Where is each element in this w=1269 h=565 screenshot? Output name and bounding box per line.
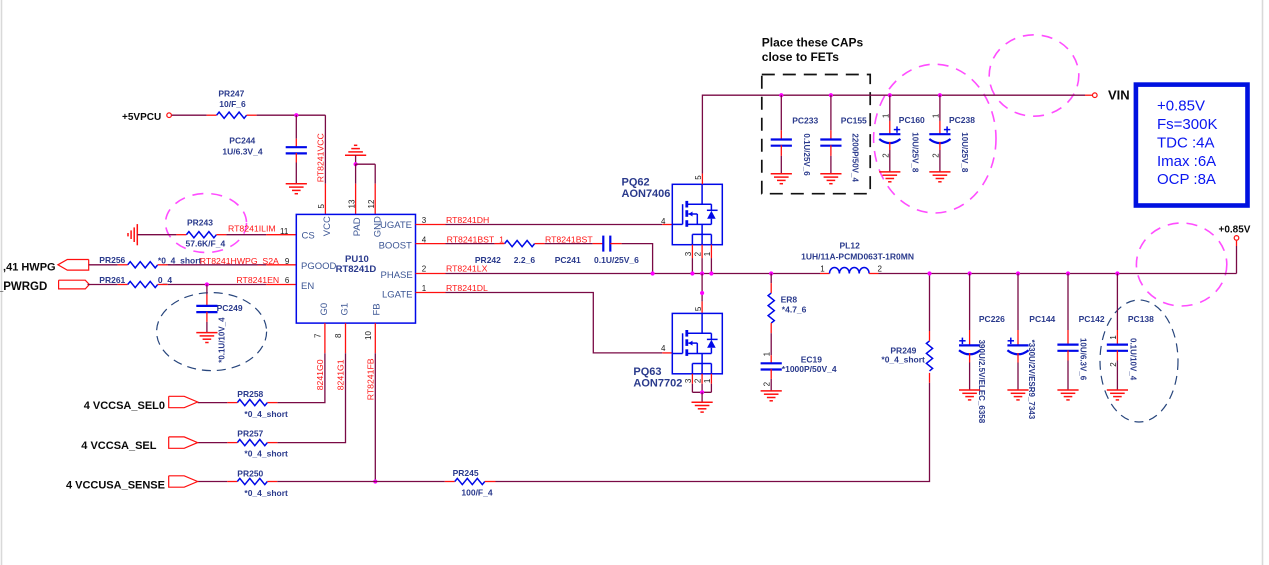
pin name GND [372, 216, 383, 237]
terminal +0.85V [1219, 225, 1251, 241]
svg-text:12: 12 [367, 199, 376, 208]
svg-text:RT8241HWPG_S2A: RT8241HWPG_S2A [200, 256, 279, 266]
svg-text:PQ62: PQ62 [622, 177, 650, 189]
svg-text:4: 4 [661, 217, 666, 226]
svg-text:10U/25V_8: 10U/25V_8 [911, 132, 920, 173]
wire PR243 to CS pin 11 [216, 234, 296, 236]
pin number 13 of PU10 [347, 199, 356, 208]
pin number 4 of PQ62 [661, 217, 666, 226]
svg-text:57.6K/F_4: 57.6K/F_4 [186, 238, 226, 248]
svg-text:10U/6.3V_6: 10U/6.3V_6 [1079, 338, 1088, 381]
wire UGATE pin 3 to PQ62 gate [416, 224, 673, 226]
capacitor PC138 [1107, 314, 1154, 381]
wire ER8 to EC19 [770, 323, 772, 363]
svg-text:close to FETs: close to FETs [762, 50, 839, 64]
svg-text:PHASE: PHASE [381, 270, 413, 281]
svg-text:2200P/50V_4: 2200P/50V_4 [851, 133, 860, 182]
terminal +5VPCU [122, 112, 171, 123]
svg-text:EC19: EC19 [801, 354, 823, 364]
wire PR261 to EN pin 6 [158, 284, 297, 286]
svg-text:10/F_6: 10/F_6 [219, 99, 246, 109]
annotation dashed ellipse around PR243 [166, 194, 247, 253]
svg-text:,41 HWPG: ,41 HWPG [3, 262, 56, 274]
svg-text:*4.7_6: *4.7_6 [782, 305, 807, 315]
wire junction to pin 12 [356, 164, 376, 214]
page edge line right [1262, 0, 1264, 565]
svg-text:PR243: PR243 [187, 218, 213, 228]
pin name PAD [352, 217, 363, 236]
wire PQ62 pin 1 to LX [710, 245, 712, 274]
pin number 2 of PQ62 [694, 251, 703, 256]
pin name EN [301, 281, 314, 292]
capacitor PC238 [929, 115, 975, 173]
wire VCC vertical to pin 5 [324, 115, 326, 214]
svg-text:+0.85V: +0.85V [1219, 225, 1251, 236]
wire FB pin 10 down [374, 323, 376, 481]
wire PR245 to PR249 column [485, 373, 930, 482]
svg-text:PR256: PR256 [99, 255, 125, 265]
svg-text:2: 2 [1109, 362, 1118, 367]
net label RT8241BST_1 [447, 234, 504, 244]
svg-text:PR261: PR261 [99, 275, 125, 285]
svg-text:_PWRGD: _PWRGD [0, 281, 47, 293]
svg-text:8241G0: 8241G0 [315, 359, 325, 390]
net label 8241G0 [315, 359, 325, 390]
wire PR258 to connector [198, 402, 238, 404]
svg-text:1: 1 [703, 251, 712, 256]
resistor PR242 [475, 241, 535, 265]
pin number 11 of PU10 [280, 227, 289, 236]
pin number 2 of PL12 [878, 265, 883, 274]
ground below PC144 [1007, 390, 1028, 400]
svg-text:Place these CAPs: Place these CAPs [762, 36, 864, 50]
svg-text:0.1U/10V_4: 0.1U/10V_4 [1128, 338, 1137, 381]
node LX junction ER8 [769, 271, 773, 275]
wire EC19 to ground [770, 369, 772, 391]
svg-text:ER8: ER8 [781, 295, 798, 305]
pin name PGOOD [301, 261, 337, 272]
pin number 3 of PQ62 [684, 251, 693, 256]
pin number 5 of PQ62 [694, 175, 703, 180]
svg-text:RT8241FB: RT8241FB [365, 358, 375, 400]
capacitor PC160 [879, 115, 925, 173]
wire ground to PR243 [137, 234, 186, 236]
node LX junction pin2 [700, 271, 704, 275]
pin name PHASE [381, 270, 413, 281]
svg-text:RT8241EN: RT8241EN [236, 275, 279, 285]
wire VIN to PC233 [780, 95, 782, 139]
svg-text:PR245: PR245 [453, 468, 479, 478]
pin number 5 of PQ63 [694, 306, 703, 311]
svg-text:5: 5 [694, 306, 703, 311]
node PAD-GND junction [354, 162, 358, 166]
annotation dashed ellipse around PC138 [1100, 300, 1178, 422]
svg-text:*1000P/50V_4: *1000P/50V_4 [782, 364, 837, 374]
pin name UGATE [380, 220, 412, 231]
svg-text:*330U/2V/ESR9_7343: *330U/2V/ESR9_7343 [1027, 340, 1036, 420]
net label RT8241ILIM [228, 224, 276, 234]
wire PC160 to ground [889, 142, 891, 172]
svg-text:PC138: PC138 [1128, 314, 1154, 324]
wire LX to ER8 [770, 274, 772, 294]
svg-text:*0_4_short: *0_4_short [244, 409, 288, 419]
wire PQ62 pin 3 to LX [691, 245, 693, 274]
wire PR257 to connector [198, 442, 238, 444]
svg-text:*0_4_short: *0_4_short [244, 448, 288, 458]
svg-text:CS: CS [302, 231, 315, 242]
svg-text:4 VCCSA_SEL0: 4 VCCSA_SEL0 [84, 400, 165, 412]
pin name G0 [319, 303, 330, 316]
svg-text:VCC: VCC [322, 216, 333, 236]
pin number 3 of PQ63 [684, 378, 693, 383]
pin number 9 of PU10 [285, 257, 290, 266]
ground below PC249 [196, 333, 217, 343]
wire rail to PC138 [1116, 274, 1118, 345]
svg-text:10: 10 [364, 331, 373, 340]
svg-text:1U/6.3V_4: 1U/6.3V_4 [222, 147, 262, 157]
svg-text:EN: EN [301, 281, 314, 292]
svg-text:0.1U/25V_6: 0.1U/25V_6 [802, 133, 811, 176]
net label RT8241HWPG_S2A [200, 256, 279, 266]
net label RT8241BST [545, 234, 593, 244]
wire PR242 to PC241 [535, 243, 603, 245]
net label RT8241VCC [316, 133, 326, 182]
resistor ER8 [768, 293, 807, 323]
pin number 4 of PU10 [422, 235, 427, 244]
svg-text:BOOST: BOOST [379, 241, 412, 252]
wire PC233 to ground [780, 145, 782, 174]
svg-text:RT8241D: RT8241D [336, 264, 377, 275]
connector VCCUSA_SENSE [66, 476, 198, 492]
svg-text:0_4: 0_4 [158, 275, 172, 285]
svg-text:2: 2 [694, 251, 703, 256]
wire junction to PC249 [206, 285, 208, 306]
wire HWPG to PR256 [89, 264, 128, 266]
svg-text:100/F_4: 100/F_4 [461, 488, 492, 498]
ground below PC160 [879, 172, 900, 182]
ground below PC238 [929, 172, 950, 182]
wire VIN to PC155 [830, 95, 832, 139]
wire VCCUSA_SENSE to PR250 [198, 481, 238, 483]
wire PC241 to LX node [610, 244, 652, 274]
svg-text:3: 3 [422, 216, 427, 225]
wire PR250 to FB junction [267, 481, 375, 483]
pin number 2 of PC160 [881, 153, 890, 158]
pin number 1 of PQ62 [703, 251, 712, 256]
pin number 10 of PU10 [364, 331, 373, 340]
svg-text:1: 1 [703, 378, 712, 383]
svg-text:5: 5 [317, 204, 326, 209]
svg-text:LGATE: LGATE [382, 290, 412, 301]
annotation dashed circle near VIN [989, 35, 1079, 116]
svg-text:PC249: PC249 [217, 303, 243, 313]
svg-text:Imax :6A: Imax :6A [1157, 153, 1216, 170]
connector PWRGD [0, 280, 89, 293]
svg-text:OCP :8A: OCP :8A [1157, 171, 1216, 188]
node FB-SENSE junction [373, 479, 377, 483]
terminal VIN [1093, 87, 1130, 102]
svg-text:390U/2.5V/ELEC_6358: 390U/2.5V/ELEC_6358 [977, 340, 986, 424]
pin number 1 of PU10 [422, 284, 427, 293]
svg-text:Fs=300K: Fs=300K [1157, 116, 1217, 133]
annotation dashed ellipse around PC160 PC238 [874, 64, 996, 213]
svg-text:TDC :4A: TDC :4A [1157, 134, 1215, 151]
ground below PC142 [1057, 390, 1078, 400]
svg-text:4: 4 [422, 235, 427, 244]
wire PC226 to ground [969, 353, 971, 390]
wire PC144 to ground [1017, 353, 1019, 390]
wire PC142 to ground [1067, 350, 1069, 390]
ground below PC155 [820, 174, 841, 184]
capacitor PC144 [1007, 314, 1055, 420]
svg-text:PC244: PC244 [229, 136, 255, 146]
svg-text:*0_4_short: *0_4_short [881, 354, 925, 364]
svg-text:13: 13 [347, 199, 356, 208]
wire rail up to +0.85V terminal [1236, 241, 1238, 274]
wire PQ63 pin 2 to gnd bar [701, 374, 703, 393]
info box +0.85V specs [1136, 85, 1248, 206]
ground below PC244 [286, 184, 307, 194]
pin number 3 of PU10 [422, 216, 427, 225]
node rail junction PC138 [1115, 271, 1119, 275]
wire BOOST pin 4 to PR242 [416, 243, 505, 245]
connector HWPG [3, 260, 89, 274]
node VIN junction PC155 [829, 93, 833, 97]
ground below PC233 [771, 174, 792, 184]
capacitor PC241 [555, 236, 639, 265]
resistor PR257 [237, 429, 288, 459]
resistor PR256 [99, 255, 201, 268]
transistor PQ62 AON7406 [622, 177, 723, 245]
ground below PC226 [959, 390, 980, 400]
svg-text:1: 1 [422, 284, 427, 293]
svg-text:2: 2 [694, 378, 703, 383]
wire LGATE pin 1 to PQ63 gate [416, 293, 673, 353]
pin name VCC [322, 216, 333, 236]
svg-text:PR258: PR258 [237, 389, 263, 399]
pin number 2 of EC19 [763, 381, 772, 386]
node rail junction PR249 [927, 271, 931, 275]
net label RT8241EN [236, 275, 279, 285]
resistor PR247 [217, 89, 247, 119]
wire PQ63 pin 3 to gnd bar [691, 374, 693, 393]
capacitor PC142 [1057, 314, 1104, 381]
svg-text:5: 5 [694, 175, 703, 180]
resistor PR261 [99, 275, 172, 288]
resistor PR249 [881, 341, 932, 371]
svg-text:8241G1: 8241G1 [336, 359, 346, 390]
svg-text:AON7702: AON7702 [633, 377, 682, 389]
net label RT8241DH [446, 215, 489, 225]
svg-text:1UH/11A-PCMD063T-1R0MN: 1UH/11A-PCMD063T-1R0MN [801, 251, 914, 261]
net label RT8241DL [446, 283, 488, 293]
capacitor PC244 [222, 136, 307, 157]
wire rail to PC226 [969, 274, 971, 346]
svg-text:PC238: PC238 [949, 115, 975, 125]
node on PQ63 drain wire [700, 291, 704, 295]
node EN-PC249 junction [205, 282, 209, 286]
svg-text:4 VCCSA_SEL: 4 VCCSA_SEL [81, 440, 156, 452]
pin number 2 of PU10 [422, 265, 427, 274]
pin number 12 of PU10 [367, 199, 376, 208]
svg-text:1: 1 [763, 351, 772, 356]
net label RT8241FB [365, 358, 375, 400]
wire VIN rail to terminal [1085, 94, 1092, 96]
svg-text:PR257: PR257 [237, 429, 263, 439]
svg-text:PC226: PC226 [979, 314, 1005, 324]
svg-text:PQ63: PQ63 [633, 366, 661, 378]
svg-text:11: 11 [280, 227, 289, 236]
connector VCCSA_SEL [81, 437, 197, 452]
svg-text:AON7406: AON7406 [622, 188, 671, 200]
annotation dashed rectangle around PC233 PC155 [762, 75, 870, 194]
wire VIN rail corner to PQ62 pin 5 [702, 95, 1085, 184]
svg-text:+5VPCU: +5VPCU [122, 112, 161, 123]
wire PC244 to ground [295, 153, 297, 184]
pin name G1 [339, 303, 350, 316]
wire PC238 to ground [939, 142, 941, 172]
capacitor PC226 [959, 314, 1005, 424]
wire PC138 to ground [1116, 350, 1118, 390]
svg-text:VIN: VIN [1108, 87, 1130, 102]
pin number 2 of PQ63 [694, 378, 703, 383]
svg-text:G1: G1 [339, 303, 350, 316]
wire FB junction to PR245 [375, 481, 455, 483]
pin name BOOST [379, 241, 412, 252]
node rail junction PC142 [1066, 271, 1070, 275]
svg-text:4 VCCUSA_SENSE: 4 VCCUSA_SENSE [66, 479, 165, 491]
node VIN junction PC238 [938, 93, 942, 97]
ground below PC138 [1107, 390, 1128, 400]
resistor PR258 [237, 389, 288, 419]
pin number 4 of PQ63 [661, 344, 666, 353]
wire +5VPCU to PR247 [172, 114, 217, 116]
wire PQ63 source bar [692, 391, 711, 393]
svg-text:PC155: PC155 [841, 115, 867, 125]
net label RT8241LX [446, 264, 488, 274]
svg-text:8: 8 [334, 333, 343, 338]
wire PC249 to ground [206, 312, 208, 333]
svg-text:1: 1 [1109, 335, 1118, 340]
wire PQ62 pin 2 to LX [701, 245, 703, 274]
pin number 7 of PU10 [314, 333, 323, 338]
svg-text:1: 1 [931, 113, 940, 118]
capacitor EC19 [761, 354, 837, 374]
wire PQ63 pin 1 to gnd bar [710, 374, 712, 393]
svg-text:3: 3 [684, 378, 693, 383]
pin name CS [302, 231, 315, 242]
svg-text:PC160: PC160 [899, 115, 925, 125]
wire G1 pin 8 to PR257 [267, 323, 345, 443]
capacitor PC155 [820, 115, 867, 182]
node PQ63 source junction [700, 390, 704, 394]
svg-text:9: 9 [285, 257, 290, 266]
ground below EC19 [761, 391, 782, 401]
wire junction to PC244 [295, 115, 297, 147]
pin number 5 of PU10 [317, 204, 326, 209]
svg-text:RT8241DH: RT8241DH [446, 215, 489, 225]
node BST cap junction [651, 271, 655, 275]
annotation dashed ellipse around PC249 [157, 293, 267, 371]
svg-text:G0: G0 [319, 303, 330, 316]
node rail junction PC144 [1016, 271, 1020, 275]
resistor PR245 [453, 468, 493, 498]
capacitor PC233 [771, 115, 819, 176]
svg-text:*0.1U/10V_4: *0.1U/10V_4 [218, 317, 227, 363]
ground left of PR243 [128, 224, 137, 245]
pin name FB [371, 303, 382, 315]
svg-text:7: 7 [314, 333, 323, 338]
transistor PQ63 AON7702 [633, 313, 722, 389]
inductor PL12 [801, 240, 914, 273]
svg-text:0.1U/25V_6: 0.1U/25V_6 [594, 255, 639, 265]
svg-text:PAD: PAD [352, 217, 363, 236]
wire PC155 to ground [830, 145, 832, 174]
op-amp U1 PU10 RT8241D body [296, 214, 415, 323]
annotation dashed circle near +0.85V [1136, 223, 1226, 306]
wire LX down to PQ63 pin 5 [701, 274, 703, 314]
svg-text:RT8241BST: RT8241BST [545, 234, 593, 244]
svg-text:UGATE: UGATE [380, 220, 412, 231]
svg-text:10U/25V_8: 10U/25V_8 [960, 132, 969, 173]
svg-text:6: 6 [285, 276, 290, 285]
pin name LGATE [382, 290, 412, 301]
svg-text:RT8241ILIM: RT8241ILIM [228, 224, 276, 234]
pin number 8 of PU10 [334, 333, 343, 338]
svg-text:RT8241LX: RT8241LX [446, 264, 488, 274]
svg-text:2.2_6: 2.2_6 [514, 255, 536, 265]
pin number 1 of PC238 [931, 113, 940, 118]
wire PR247 to VCC node [247, 114, 326, 116]
node RT8241VCC junction [294, 113, 298, 117]
pin number 1 of EC19 [763, 351, 772, 356]
svg-text:RT8241DL: RT8241DL [446, 283, 488, 293]
node rail junction PC226 [968, 271, 972, 275]
svg-text:PC144: PC144 [1029, 314, 1055, 324]
wire VIN to PC160 [889, 95, 891, 134]
wire rail to PC142 [1067, 274, 1069, 345]
svg-text:PGOOD: PGOOD [301, 261, 337, 272]
ground above PAD GND pins [345, 145, 366, 155]
connector VCCSA_SEL0 [84, 396, 198, 412]
pin number 1 of PC160 [881, 113, 890, 118]
wire to PQ63 ground [701, 392, 703, 402]
node VIN junction PC233 [779, 93, 783, 97]
ground below PQ63 [692, 402, 713, 412]
svg-text:RT8241BST_1: RT8241BST_1 [447, 234, 504, 244]
wire PR249 to LX rail [929, 274, 931, 341]
svg-text:+0.85V: +0.85V [1157, 97, 1205, 114]
svg-text:PL12: PL12 [840, 240, 861, 250]
note Place these CAPs close to FETs [762, 36, 864, 65]
svg-text:2: 2 [931, 153, 940, 158]
wire PR256 to PGOOD pin 9 [158, 264, 297, 266]
wire ground to PAD GND junction [355, 155, 357, 164]
svg-text:2: 2 [422, 265, 427, 274]
wire rail to PC144 [1017, 274, 1019, 346]
svg-text:FB: FB [371, 303, 382, 315]
wire VIN to PC238 [939, 95, 941, 134]
svg-text:1: 1 [820, 265, 825, 274]
wire PHASE pin 2 to inductor [416, 273, 821, 275]
svg-text:PR247: PR247 [218, 89, 244, 99]
svg-text:2: 2 [878, 265, 883, 274]
pin number 1 of PL12 [820, 265, 825, 274]
resistor PR243 [186, 218, 226, 249]
svg-text:*0_4_short: *0_4_short [244, 488, 288, 498]
resistor PR250 [237, 468, 288, 498]
wire PWRGD to PR261 [88, 284, 128, 286]
